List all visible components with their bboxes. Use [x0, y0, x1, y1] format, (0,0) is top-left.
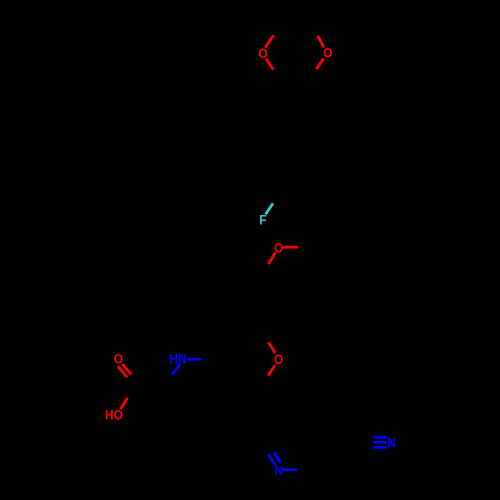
- wire bond N1-C lower-left half: [172, 364, 180, 374]
- svg-text:O: O: [274, 351, 283, 367]
- wire bond N2-C right half: [283, 468, 297, 471]
- wire triple bond C#N3 middle line half: [373, 441, 387, 444]
- wire bond O2-C4a lower half: [316, 59, 323, 70]
- wire double bond C=O5 inner line half: [122, 364, 131, 374]
- wire bond O3-CH2 right half: [283, 246, 298, 249]
- svg-text:O: O: [114, 351, 123, 367]
- wire double bond C=O5 outer line half: [118, 366, 127, 377]
- wire bond O4-C upper-left half: [269, 342, 276, 353]
- wire triple bond C#N3 top line half: [373, 436, 387, 439]
- wire bond F1-C aryl half: [266, 203, 274, 214]
- wire bond O1-C8a lower half: [266, 58, 273, 69]
- wire bond O3-C aryl lower-left half: [268, 253, 275, 265]
- wire bond O1-C2 upper half: [265, 35, 274, 47]
- wire bond O6-C half: [120, 398, 127, 410]
- wire bond O4-C lower-left half: [268, 365, 275, 376]
- svg-text:N: N: [387, 435, 396, 451]
- wire bond O2-C3 upper half: [318, 36, 324, 48]
- wire bond N1-C right half: [187, 358, 201, 361]
- wire double bond N2=C inner line half: [274, 452, 281, 462]
- wire triple bond C#N3 bottom line half: [373, 446, 387, 449]
- wire double bond N2=C outer line half: [268, 454, 276, 465]
